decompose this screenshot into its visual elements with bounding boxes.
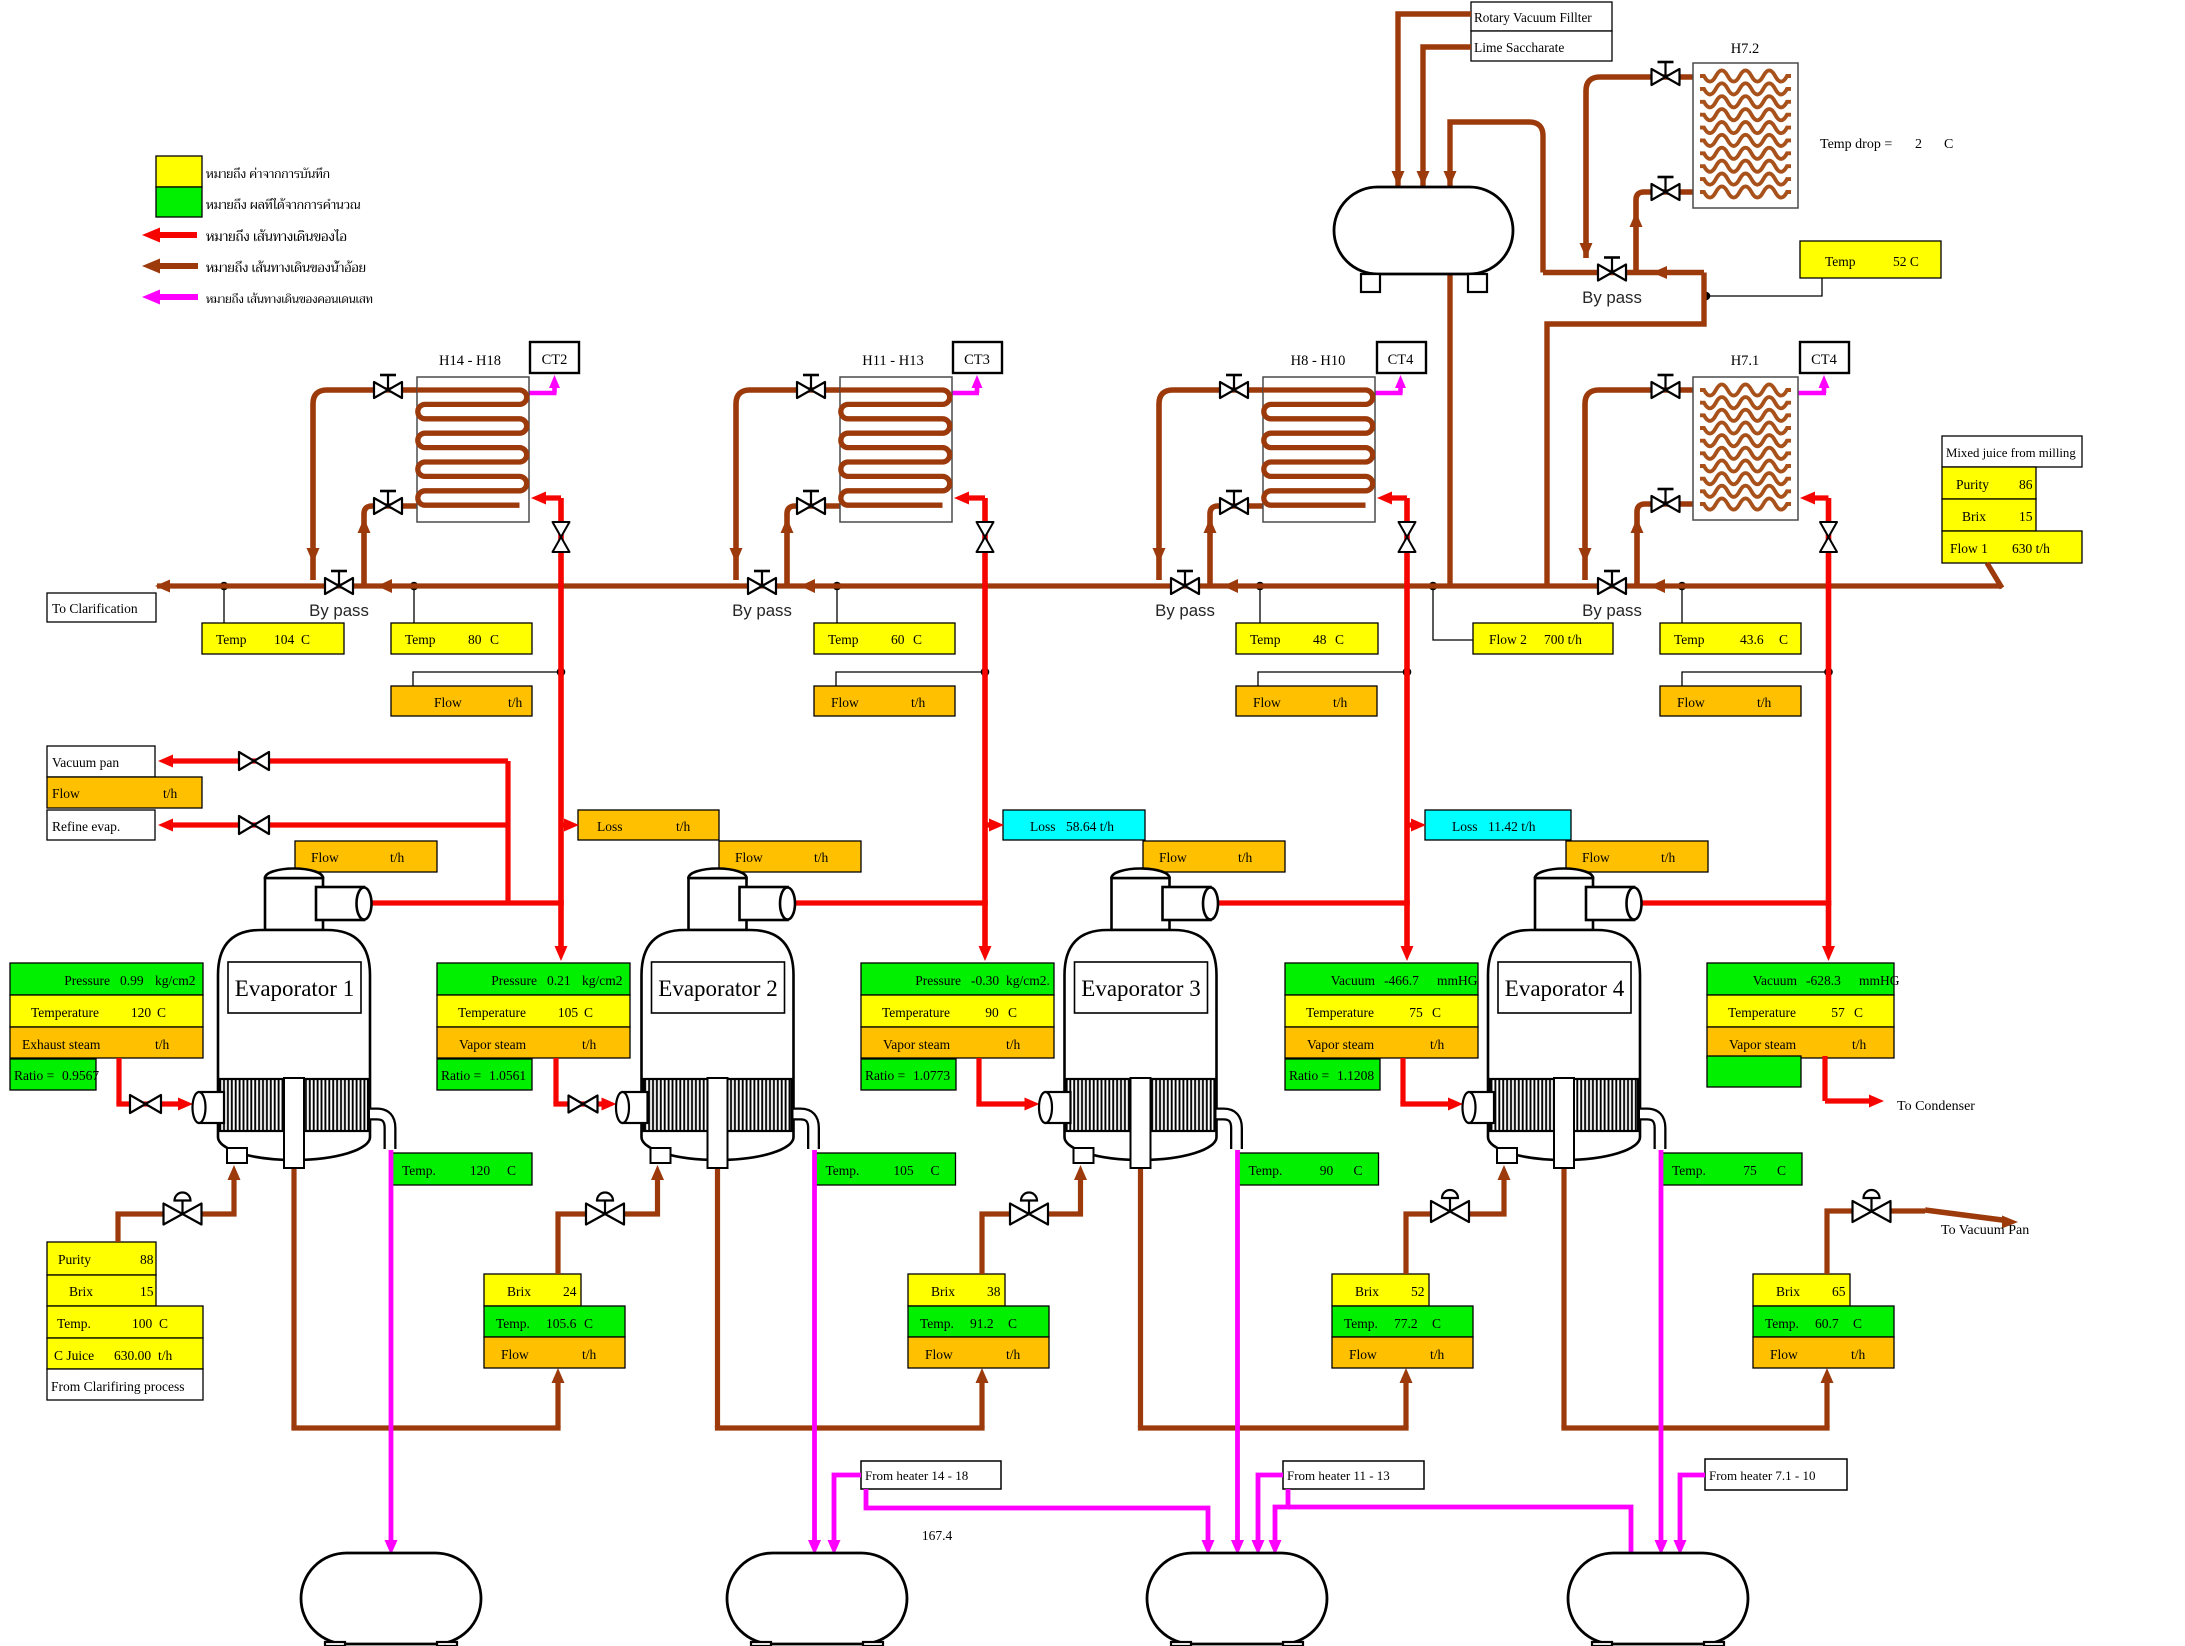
- svg-text:t/h: t/h: [158, 1348, 173, 1363]
- svg-text:By pass: By pass: [732, 601, 792, 620]
- svg-text:104: 104: [274, 632, 295, 647]
- svg-text:Vapor steam: Vapor steam: [459, 1037, 527, 1052]
- svg-text:Flow 2: Flow 2: [1489, 632, 1527, 647]
- svg-text:By pass: By pass: [309, 601, 369, 620]
- svg-text:t/h: t/h: [1852, 1037, 1867, 1052]
- svg-text:Flow: Flow: [1582, 850, 1610, 865]
- svg-text:91.2: 91.2: [970, 1316, 994, 1331]
- svg-text:Flow: Flow: [52, 786, 80, 801]
- svg-text:Purity: Purity: [1956, 477, 1989, 492]
- svg-text:Temperature: Temperature: [31, 1005, 99, 1020]
- svg-text:Vacuum: Vacuum: [1753, 973, 1798, 988]
- svg-text:t/h: t/h: [163, 786, 178, 801]
- svg-text:60: 60: [891, 632, 905, 647]
- svg-text:C: C: [490, 632, 499, 647]
- svg-text:Refine evap.: Refine evap.: [52, 819, 120, 834]
- svg-text:90: 90: [1320, 1163, 1334, 1178]
- svg-text:From heater 11 - 13: From heater 11 - 13: [1287, 1468, 1390, 1483]
- svg-text:1.1208: 1.1208: [1337, 1068, 1374, 1083]
- svg-text:Pressure: Pressure: [64, 973, 110, 988]
- svg-text:630.00: 630.00: [114, 1348, 151, 1363]
- svg-text:By pass: By pass: [1582, 601, 1642, 620]
- svg-text:C: C: [507, 1163, 516, 1178]
- svg-text:t/h: t/h: [1006, 1347, 1021, 1362]
- svg-text:Rotary Vacuum Fillter: Rotary Vacuum Fillter: [1474, 10, 1592, 25]
- svg-text:Brix: Brix: [69, 1284, 93, 1299]
- svg-text:C: C: [1853, 1316, 1862, 1331]
- svg-text:Temperature: Temperature: [1728, 1005, 1796, 1020]
- svg-text:Vacuum: Vacuum: [1331, 973, 1376, 988]
- svg-text:t/h: t/h: [155, 1037, 170, 1052]
- svg-text:88: 88: [140, 1252, 154, 1267]
- svg-text:24: 24: [563, 1284, 577, 1299]
- svg-text:48: 48: [1313, 632, 1327, 647]
- svg-text:C: C: [1354, 1163, 1363, 1178]
- svg-text:H11 - H13: H11 - H13: [862, 353, 923, 369]
- svg-text:57: 57: [1831, 1005, 1845, 1020]
- svg-text:Flow: Flow: [311, 850, 339, 865]
- svg-text:Flow: Flow: [1770, 1347, 1798, 1362]
- svg-text:-466.7: -466.7: [1384, 973, 1419, 988]
- svg-text:Temperature: Temperature: [882, 1005, 950, 1020]
- svg-text:0.9567: 0.9567: [62, 1068, 99, 1083]
- svg-text:Temp.: Temp.: [402, 1163, 436, 1178]
- svg-text:75: 75: [1743, 1163, 1757, 1178]
- svg-text:65: 65: [1832, 1284, 1846, 1299]
- svg-text:t/h: t/h: [1430, 1347, 1445, 1362]
- svg-text:CT4: CT4: [1388, 352, 1415, 368]
- svg-text:CT3: CT3: [964, 352, 990, 368]
- svg-text:Evaporator 3: Evaporator 3: [1081, 976, 1200, 1001]
- svg-text:Temperature: Temperature: [1306, 1005, 1374, 1020]
- svg-text:Temp: Temp: [1825, 254, 1856, 269]
- svg-text:Flow: Flow: [735, 850, 763, 865]
- svg-text:Pressure: Pressure: [915, 973, 961, 988]
- svg-text:Evaporator 2: Evaporator 2: [658, 976, 777, 1001]
- svg-text:By pass: By pass: [1582, 288, 1642, 307]
- svg-text:t/h: t/h: [390, 850, 405, 865]
- svg-text:C: C: [1432, 1316, 1441, 1331]
- svg-text:Temp: Temp: [405, 632, 436, 647]
- svg-text:Temp: Temp: [1250, 632, 1281, 647]
- svg-text:Flow: Flow: [1159, 850, 1187, 865]
- svg-text:Temp: Temp: [1674, 632, 1705, 647]
- svg-text:t/h: t/h: [582, 1037, 597, 1052]
- svg-text:Ratio =: Ratio =: [865, 1068, 905, 1083]
- svg-text:Brix: Brix: [507, 1284, 531, 1299]
- svg-text:t/h: t/h: [508, 695, 523, 710]
- svg-text:75: 75: [1409, 1005, 1423, 1020]
- svg-text:kg/cm2.: kg/cm2.: [1006, 973, 1050, 988]
- svg-text:C: C: [1854, 1005, 1863, 1020]
- svg-text:t/h: t/h: [1333, 695, 1348, 710]
- svg-text:Loss: Loss: [597, 819, 623, 834]
- svg-text:Brix: Brix: [931, 1284, 955, 1299]
- svg-text:Brix: Brix: [1355, 1284, 1379, 1299]
- svg-text:Flow: Flow: [1349, 1347, 1377, 1362]
- svg-text:-0.30: -0.30: [971, 973, 999, 988]
- svg-text:Loss: Loss: [1030, 819, 1056, 834]
- svg-text:105: 105: [893, 1163, 914, 1178]
- svg-text:t/h: t/h: [814, 850, 829, 865]
- svg-text:Temp.: Temp.: [1249, 1163, 1283, 1178]
- svg-text:Loss: Loss: [1452, 819, 1478, 834]
- svg-text:120: 120: [470, 1163, 491, 1178]
- svg-text:43.6: 43.6: [1740, 632, 1764, 647]
- svg-text:t/h: t/h: [1757, 695, 1772, 710]
- svg-text:C: C: [157, 1005, 166, 1020]
- svg-text:0.99: 0.99: [120, 973, 144, 988]
- svg-text:Temperature: Temperature: [458, 1005, 526, 1020]
- svg-text:Temp.: Temp.: [826, 1163, 860, 1178]
- svg-text:Ratio =: Ratio =: [14, 1068, 54, 1083]
- svg-text:C: C: [1944, 137, 1953, 152]
- svg-text:From Clarifiring process: From Clarifiring process: [51, 1379, 184, 1394]
- svg-text:Temp.: Temp.: [1672, 1163, 1706, 1178]
- svg-text:Lime Saccharate: Lime Saccharate: [1474, 40, 1564, 55]
- svg-text:15: 15: [140, 1284, 154, 1299]
- svg-text:Flow: Flow: [925, 1347, 953, 1362]
- svg-text:77.2: 77.2: [1394, 1316, 1418, 1331]
- svg-text:C: C: [1008, 1316, 1017, 1331]
- svg-text:C: C: [1432, 1005, 1441, 1020]
- svg-text:Vapor steam: Vapor steam: [1307, 1037, 1375, 1052]
- svg-text:86: 86: [2019, 477, 2033, 492]
- svg-text:Evaporator 1: Evaporator 1: [235, 976, 354, 1001]
- svg-text:105.6: 105.6: [546, 1316, 577, 1331]
- svg-text:C: C: [301, 632, 310, 647]
- svg-text:Temp.: Temp.: [496, 1316, 530, 1331]
- svg-text:105: 105: [558, 1005, 579, 1020]
- svg-text:Evaporator 4: Evaporator 4: [1505, 976, 1625, 1001]
- svg-text:Flow: Flow: [831, 695, 859, 710]
- svg-text:Brix: Brix: [1776, 1284, 1800, 1299]
- svg-text:t/h: t/h: [1851, 1347, 1866, 1362]
- svg-text:Temp drop =: Temp drop =: [1820, 137, 1892, 152]
- svg-text:Flow 1: Flow 1: [1950, 541, 1988, 556]
- svg-text:15: 15: [2019, 509, 2033, 524]
- svg-text:-628.3: -628.3: [1806, 973, 1841, 988]
- svg-text:630 t/h: 630 t/h: [2012, 541, 2050, 556]
- svg-text:Pressure: Pressure: [491, 973, 537, 988]
- svg-text:kg/cm2: kg/cm2: [582, 973, 623, 988]
- svg-text:C Juice: C Juice: [54, 1348, 94, 1363]
- svg-text:52: 52: [1411, 1284, 1425, 1299]
- svg-text:Brix: Brix: [1962, 509, 1986, 524]
- svg-text:700 t/h: 700 t/h: [1544, 632, 1582, 647]
- svg-text:t/h: t/h: [1430, 1037, 1445, 1052]
- svg-text:C: C: [1335, 632, 1344, 647]
- svg-text:H8 - H10: H8 - H10: [1291, 353, 1346, 369]
- svg-text:C: C: [931, 1163, 940, 1178]
- svg-text:kg/cm2: kg/cm2: [155, 973, 196, 988]
- svg-text:52 C: 52 C: [1893, 254, 1919, 269]
- svg-text:mmHG: mmHG: [1859, 973, 1900, 988]
- svg-text:100: 100: [132, 1316, 153, 1331]
- svg-text:CT4: CT4: [1811, 352, 1838, 368]
- svg-text:Temp.: Temp.: [57, 1316, 91, 1331]
- svg-text:To Vacuum Pan: To Vacuum Pan: [1941, 1223, 2029, 1238]
- svg-text:t/h: t/h: [1006, 1037, 1021, 1052]
- svg-text:1.0773: 1.0773: [913, 1068, 950, 1083]
- svg-text:Temp.: Temp.: [920, 1316, 954, 1331]
- svg-text:Temp: Temp: [216, 632, 247, 647]
- svg-text:From heater 14 - 18: From heater 14 - 18: [865, 1468, 968, 1483]
- svg-text:Temp.: Temp.: [1765, 1316, 1799, 1331]
- svg-text:C: C: [584, 1005, 593, 1020]
- svg-text:CT2: CT2: [542, 352, 568, 368]
- svg-text:Purity: Purity: [58, 1252, 91, 1267]
- svg-text:120: 120: [131, 1005, 152, 1020]
- svg-text:Flow: Flow: [434, 695, 462, 710]
- svg-text:By pass: By pass: [1155, 601, 1215, 620]
- svg-text:C: C: [1008, 1005, 1017, 1020]
- svg-text:mmHG: mmHG: [1437, 973, 1478, 988]
- svg-text:H7.2: H7.2: [1731, 41, 1760, 57]
- svg-text:t/h: t/h: [1661, 850, 1676, 865]
- svg-text:58.64 t/h: 58.64 t/h: [1066, 819, 1114, 834]
- svg-text:60.7: 60.7: [1815, 1316, 1839, 1331]
- svg-text:80: 80: [468, 632, 482, 647]
- svg-text:To Condenser: To Condenser: [1897, 1099, 1975, 1114]
- svg-text:Ratio =: Ratio =: [1289, 1068, 1329, 1083]
- svg-text:C: C: [159, 1316, 168, 1331]
- svg-text:t/h: t/h: [582, 1347, 597, 1362]
- svg-text:Vacuum pan: Vacuum pan: [52, 755, 119, 770]
- svg-text:To Clarification: To Clarification: [52, 601, 138, 616]
- svg-text:C: C: [1779, 632, 1788, 647]
- svg-text:Vapor steam: Vapor steam: [883, 1037, 951, 1052]
- svg-text:C: C: [1777, 1163, 1786, 1178]
- svg-text:Temp: Temp: [828, 632, 859, 647]
- svg-text:t/h: t/h: [1238, 850, 1253, 865]
- svg-text:2: 2: [1915, 137, 1922, 152]
- svg-text:From heater 7.1 - 10: From heater 7.1 - 10: [1709, 1468, 1816, 1483]
- svg-text:Ratio =: Ratio =: [441, 1068, 481, 1083]
- svg-text:90: 90: [985, 1005, 999, 1020]
- svg-text:t/h: t/h: [676, 819, 691, 834]
- svg-text:H14 - H18: H14 - H18: [439, 353, 501, 369]
- svg-text:167.4: 167.4: [922, 1528, 953, 1543]
- svg-text:Flow: Flow: [1677, 695, 1705, 710]
- svg-text:Flow: Flow: [1253, 695, 1281, 710]
- svg-text:Flow: Flow: [501, 1347, 529, 1362]
- svg-text:Temp.: Temp.: [1344, 1316, 1378, 1331]
- svg-text:Vapor steam: Vapor steam: [1729, 1037, 1797, 1052]
- svg-text:0.21: 0.21: [547, 973, 571, 988]
- svg-text:11.42 t/h: 11.42 t/h: [1488, 819, 1536, 834]
- svg-text:t/h: t/h: [911, 695, 926, 710]
- svg-text:Exhaust steam: Exhaust steam: [22, 1037, 101, 1052]
- svg-text:C: C: [913, 632, 922, 647]
- svg-text:C: C: [584, 1316, 593, 1331]
- svg-text:Mixed juice from milling: Mixed juice from milling: [1946, 446, 2076, 460]
- svg-text:1.0561: 1.0561: [489, 1068, 526, 1083]
- svg-text:38: 38: [987, 1284, 1001, 1299]
- svg-text:H7.1: H7.1: [1731, 353, 1760, 369]
